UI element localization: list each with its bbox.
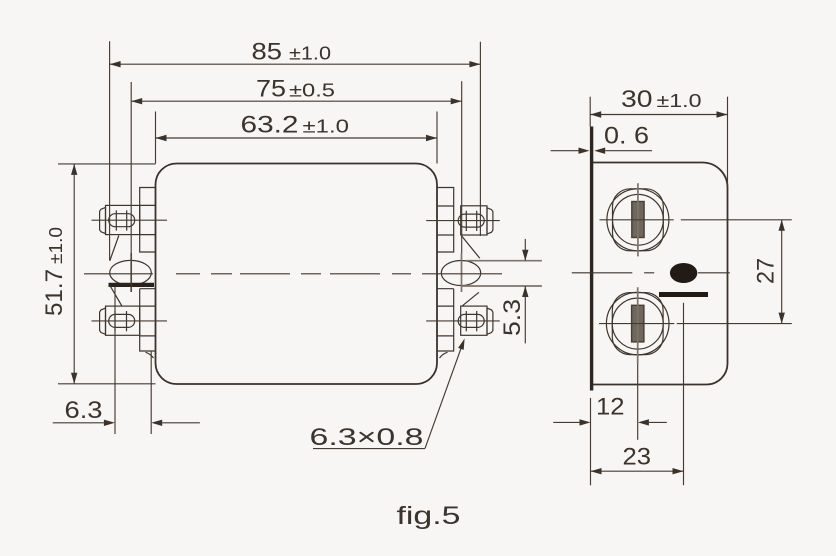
- svg-text:±1.0: ±1.0: [657, 91, 702, 111]
- filter body (front view): [156, 164, 438, 385]
- svg-text:6.3: 6.3: [65, 397, 103, 424]
- dashed centerline (end view axis): [572, 272, 730, 274]
- dimension 75±0.5: [131, 76, 462, 293]
- top screw terminal: [600, 183, 674, 256]
- dashed centerline (front view axis): [84, 273, 502, 275]
- dimension 6.3: [53, 287, 200, 435]
- dimension 85±1.0: [110, 39, 481, 261]
- dimension 5.3: [461, 239, 542, 344]
- dimension 30±1.0: [590, 86, 727, 186]
- terminal block bottom-right: [426, 306, 500, 335]
- side body (end view): [592, 163, 728, 385]
- svg-text:fig.5: fig.5: [397, 502, 461, 530]
- mounting plate edge (0.6 thick): [590, 127, 593, 391]
- svg-text:63.2: 63.2: [241, 112, 299, 139]
- terminal block top-left: [92, 205, 168, 234]
- terminal block bottom-left: [92, 306, 168, 335]
- terminal block top-right: [426, 206, 500, 235]
- indicator dot: [670, 263, 697, 283]
- svg-text:0. 6: 0. 6: [604, 123, 649, 150]
- svg-text:75: 75: [256, 76, 286, 103]
- dimension 23: [591, 303, 684, 486]
- svg-text:23: 23: [623, 444, 652, 471]
- svg-text:51.7: 51.7: [41, 269, 68, 316]
- diagonal brace top-right: [462, 236, 480, 258]
- dimension 27: [677, 220, 792, 324]
- left bushing black bar: [109, 283, 155, 287]
- left bushing crosshair: [130, 253, 132, 292]
- dimension 0.6: [551, 123, 652, 154]
- svg-text:12: 12: [596, 394, 625, 421]
- right flange bottom taper: [440, 352, 448, 358]
- svg-text:±1.0: ±1.0: [46, 227, 66, 264]
- left flange bottom taper: [146, 352, 154, 358]
- svg-text:27: 27: [753, 258, 780, 284]
- diagonal brace bottom-right: [462, 292, 479, 306]
- right bushing oval: [441, 261, 480, 286]
- svg-text:±1.0: ±1.0: [289, 44, 331, 64]
- label 6.3×0.8 with leader: [310, 339, 465, 452]
- svg-text:85: 85: [252, 39, 283, 66]
- svg-text:6.3×0.8: 6.3×0.8: [310, 424, 424, 451]
- bottom screw terminal: [599, 287, 674, 364]
- diagonal brace top-left: [110, 236, 119, 261]
- dimension 12: [553, 364, 667, 485]
- black bar marking: [659, 292, 708, 297]
- dimension 51.7±1.0: [41, 164, 156, 384]
- left bushing oval: [110, 260, 152, 285]
- diagonal brace bottom-left: [110, 285, 122, 306]
- dimension 63.2±1.0: [156, 112, 438, 164]
- right bushing crosshair: [461, 253, 463, 292]
- svg-text:±1.0: ±1.0: [303, 117, 350, 137]
- right mounting flange plate: [437, 188, 454, 352]
- svg-text:5.3: 5.3: [499, 299, 526, 336]
- svg-text:±0.5: ±0.5: [289, 81, 335, 101]
- svg-text:30: 30: [621, 86, 653, 113]
- left mounting flange plate: [140, 188, 156, 352]
